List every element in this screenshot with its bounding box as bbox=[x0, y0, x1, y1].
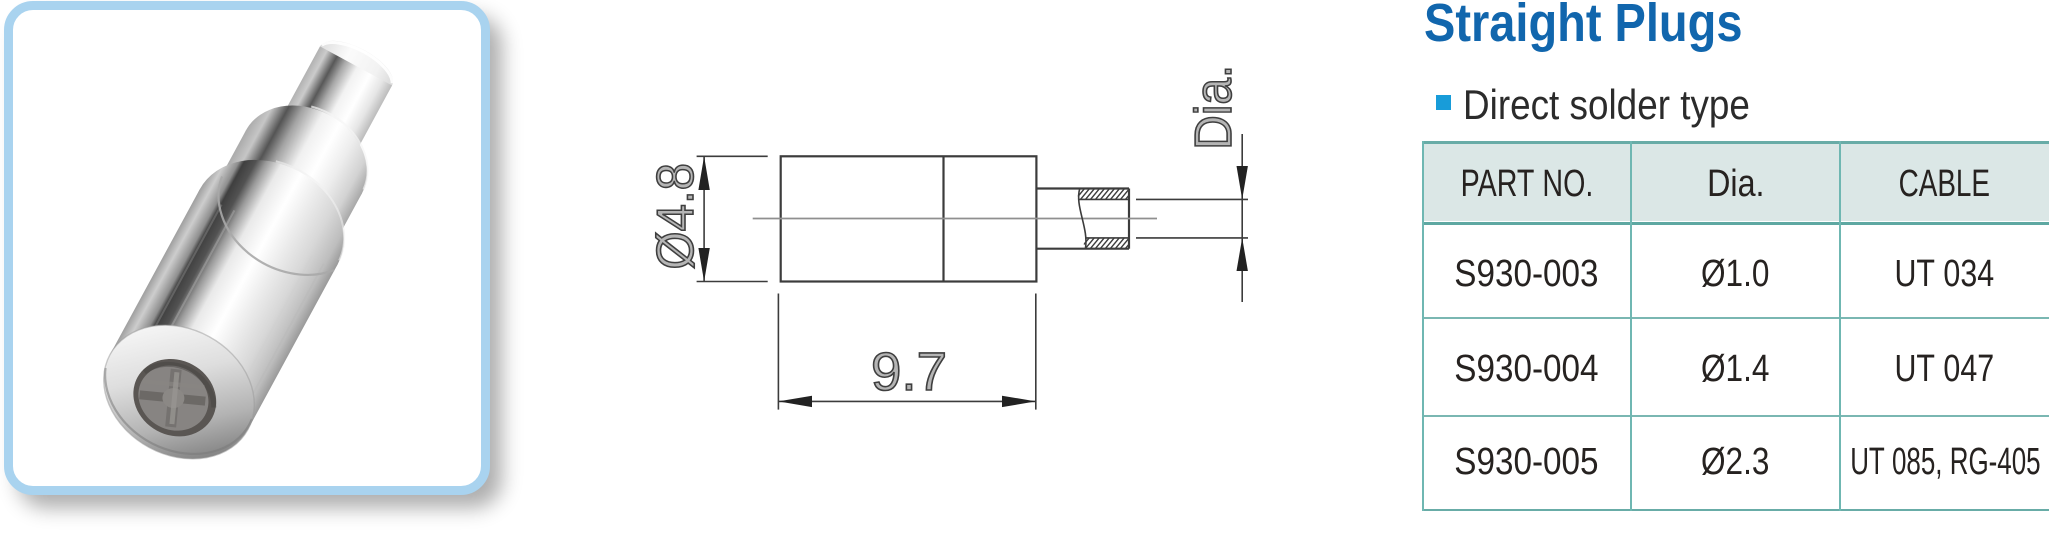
dia extension bottom bbox=[1136, 237, 1248, 239]
dim 9.7 arrow right bbox=[1002, 396, 1036, 407]
shoulder step 1 bbox=[170, 134, 368, 320]
dim 4.8 ext bottom bbox=[697, 281, 768, 283]
row 1 bbox=[1423, 255, 1630, 293]
face rim outer dark edge bbox=[80, 299, 278, 485]
technical drawing bbox=[600, 0, 1320, 535]
bore inner shadow top bbox=[144, 351, 224, 409]
pocket top bbox=[1036, 187, 1129, 189]
table bottom line bbox=[1422, 509, 2049, 512]
col divider 1 bbox=[1630, 141, 1632, 511]
pocket bottom bbox=[1036, 248, 1129, 250]
title bbox=[1424, 0, 1742, 54]
centerline bbox=[753, 218, 1157, 220]
left edge bbox=[1422, 141, 1424, 511]
connector photo (SVG recreation) bbox=[13, 10, 481, 486]
dim 4.8 line bbox=[703, 156, 705, 281]
top cap rim highlight bbox=[322, 33, 399, 84]
header PART NO. bbox=[1423, 165, 1630, 203]
dim 4.8 arrow bottom bbox=[698, 248, 709, 282]
shoulder step 2 bbox=[221, 84, 388, 240]
face ring bbox=[80, 299, 278, 485]
dim 9.7 ext left bbox=[777, 294, 779, 410]
dim 4.8 ext top bbox=[697, 155, 768, 157]
dim 9.7 arrow left bbox=[778, 396, 812, 407]
hatch bottom bbox=[1075, 231, 1145, 255]
bore bbox=[120, 344, 230, 450]
pocket right edge bbox=[1128, 189, 1130, 249]
barrel shoulder lower arc bbox=[195, 176, 348, 294]
subtitle bbox=[1463, 81, 1750, 129]
dia arrow top bbox=[1237, 166, 1248, 199]
hatch top bbox=[1070, 182, 1145, 206]
header fill bbox=[1423, 144, 2049, 222]
header bottom line bbox=[1422, 222, 2049, 226]
body divider bbox=[942, 156, 944, 281]
table top line bbox=[1422, 141, 2049, 144]
col divider 2 bbox=[1839, 141, 1841, 511]
dim 9.7 line bbox=[778, 400, 1035, 402]
dim 9.7 ext right bbox=[1035, 294, 1037, 410]
contact slots bbox=[137, 366, 208, 430]
break S-curve bbox=[1079, 189, 1086, 249]
connector body group bbox=[80, 13, 434, 485]
main barrel bbox=[110, 189, 338, 429]
row divider 1 bbox=[1422, 317, 2049, 319]
row divider 2 bbox=[1422, 415, 2049, 417]
dim 4.8 arrow top bbox=[698, 156, 709, 190]
dia extension top bbox=[1136, 198, 1248, 200]
bore bottom line bbox=[1085, 237, 1129, 239]
dia arrow bottom bbox=[1237, 238, 1248, 271]
barrel streak texture bbox=[136, 204, 326, 419]
row 2 bbox=[1423, 350, 1630, 388]
top small cylinder bbox=[268, 46, 392, 181]
body outline bbox=[781, 156, 1037, 281]
top cap bbox=[311, 31, 400, 102]
dia dimension line bbox=[1241, 134, 1243, 302]
bore top line bbox=[1080, 198, 1130, 200]
row 3 bbox=[1423, 443, 1630, 481]
middle cylinder bbox=[211, 130, 362, 258]
bullet bbox=[1436, 95, 1451, 110]
header CABLE bbox=[1840, 165, 2049, 203]
photo box (rounded light-blue frame with drop shadow) bbox=[4, 1, 490, 495]
face rim shadow arc bbox=[85, 346, 253, 480]
header Dia. bbox=[1631, 165, 1840, 203]
